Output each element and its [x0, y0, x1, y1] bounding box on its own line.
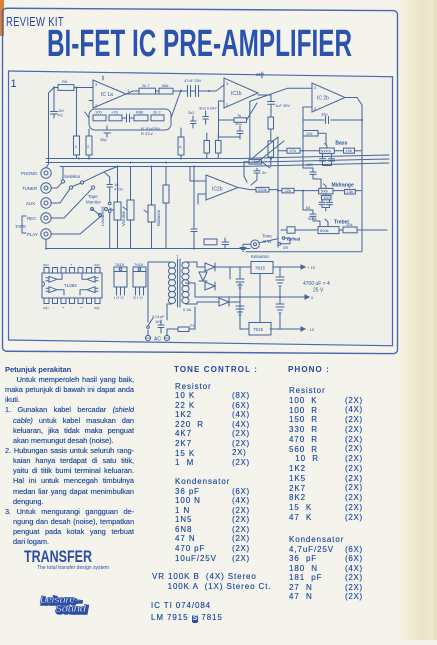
switch mains — [147, 326, 150, 329]
resistor R2 feedback — [93, 115, 106, 121]
wire output chain — [270, 129, 272, 167]
tone control kondensator qty — [232, 487, 250, 564]
capacitor C14 feedback 3n — [254, 168, 260, 176]
capacitor C1 input shunt — [51, 88, 58, 119]
cream right page edge — [398, 0, 437, 640]
capacitor C30 electrolytic — [236, 267, 244, 288]
capacitor C5 coupling pair — [186, 86, 193, 97]
feedback loop box IC1a — [89, 109, 171, 130]
selector contacts — [61, 180, 64, 183]
wire into IC1b — [202, 85, 225, 91]
transformer T1 — [178, 259, 181, 307]
capacitor C17 series 8k2 — [303, 191, 320, 227]
orange scan sliver top-left — [0, 0, 4, 36]
pot Balance — [148, 205, 155, 222]
regulator U2 7815 — [251, 262, 273, 274]
phono kondensator names — [289, 535, 344, 602]
wires jacks to selector — [51, 183, 92, 218]
wire pin2 to feedback — [85, 90, 181, 118]
pot VR2 Midrange 500K — [319, 188, 333, 194]
wire IC2a input — [250, 88, 312, 159]
wire tape monitor — [51, 209, 100, 234]
DIP internal op-amp A — [46, 274, 62, 282]
switch tone defeat contacts — [282, 237, 285, 240]
capacitor C6 selector 470n — [107, 180, 112, 191]
wire IC1a top stub — [102, 76, 104, 80]
IC U1 TL084 DIP body — [42, 273, 102, 298]
regulator TO220 7815 — [114, 267, 127, 272]
outer frame box — [3, 8, 398, 353]
resistor R39 feedback IC2b 75k — [249, 159, 262, 164]
diode D4 — [199, 272, 207, 281]
PHONO heading — [288, 365, 330, 374]
wires pots verticals — [118, 167, 191, 249]
wire IC1a output — [126, 91, 186, 94]
leisure sound logo — [40, 594, 88, 617]
resistor R9 vertical — [74, 136, 80, 155]
schematic paper tint panel — [9, 71, 392, 345]
tone control kondensator names — [175, 477, 230, 563]
capacitor C13 pair below mid — [319, 194, 333, 211]
resistor R38 220k out — [256, 187, 269, 192]
capacitor C20 — [191, 224, 197, 237]
capacitor C9 feedback IC1b — [237, 126, 243, 139]
wire primary leads — [148, 262, 172, 322]
diode D1 — [205, 263, 215, 271]
wire R11 drops — [180, 128, 182, 159]
wire feedback loop IC1b — [219, 101, 258, 139]
output terminal +15 — [296, 265, 305, 269]
capacitor C10 1uF 35V — [258, 95, 275, 117]
capacitor C8 stage2 left — [191, 116, 197, 128]
resistor R25 output chain — [268, 141, 274, 157]
output terminal 0 — [300, 295, 309, 299]
DIP internal op-amp C — [82, 274, 98, 282]
wire IC2b output — [238, 188, 278, 190]
pot VR Treble 500K — [318, 227, 339, 234]
resistor R32 bass left 47k — [287, 148, 300, 153]
regulator U3 7915 — [249, 323, 271, 336]
resistor R22 vertical stage2 — [216, 141, 222, 154]
tone control resistor names — [175, 382, 212, 468]
capacitor C8b stage2 — [203, 111, 209, 124]
bus wire 3 — [60, 163, 389, 167]
op-amp IC1b — [224, 78, 258, 108]
wire play bottom run — [46, 239, 250, 248]
svg-text:The total transfer design syst: The total transfer design system — [37, 565, 109, 571]
resistor R24 output chain — [268, 117, 274, 129]
selector wiper — [72, 171, 106, 187]
resistor R36 treble left — [287, 227, 295, 233]
wire AC leads — [148, 330, 167, 335]
DIP pins bottom — [44, 298, 49, 304]
resistor R7 output — [139, 88, 156, 94]
resistor R5 feedback — [151, 115, 164, 121]
resistor R40 lower — [204, 239, 217, 245]
junction dots — [45, 87, 363, 299]
DIP pins top — [44, 268, 49, 274]
wire bass row — [278, 150, 361, 152]
resistor R33 bass right 10k — [344, 148, 355, 153]
wire output run — [246, 238, 361, 252]
pot VR1 Bass 500KB — [320, 148, 335, 154]
capacitor C16 series 180n — [303, 151, 321, 189]
op-amp IC2b lower — [206, 175, 238, 200]
TONE CONTROL heading — [174, 365, 258, 374]
wire IC2a output right rail — [345, 98, 362, 252]
wire selector to bus diagonals — [63, 167, 118, 180]
fuse F1 — [178, 327, 189, 332]
output terminal -15 — [296, 327, 305, 331]
resistor R3 feedback — [109, 115, 122, 121]
tape monitor contacts — [91, 208, 94, 211]
jack TUNER — [41, 183, 51, 193]
jack output Keluaran — [251, 240, 260, 249]
wire IC2a feedback — [303, 107, 362, 138]
resistor R41 below mid pot — [322, 195, 332, 199]
wire feedback loop IC2b — [244, 162, 270, 185]
resistor R4 feedback — [134, 115, 148, 121]
wire R9 R10 drops — [77, 88, 90, 159]
psu wiring — [195, 262, 300, 329]
capacitor C32 electrolytic — [236, 297, 244, 329]
resistor R31 12k — [303, 131, 318, 137]
resistor R21 vertical stage2 — [204, 141, 210, 154]
capacitor C11 feedback IC2a 36p — [326, 117, 329, 124]
regulator TO220 7915 — [133, 267, 146, 272]
wire stage2 drops — [207, 133, 219, 159]
pot Loudness — [114, 202, 121, 220]
bus wire 2 — [46, 159, 389, 163]
resistor R23 feedback IC1b — [234, 118, 247, 123]
input coupling wire — [54, 87, 93, 89]
pot Volume — [127, 200, 134, 220]
bus wire 1 — [46, 155, 389, 159]
AC input terminals — [145, 335, 150, 340]
resistor R35 mid right 15k — [345, 189, 356, 194]
op-amp IC1a — [93, 80, 126, 108]
svg-text:TRANSFER: TRANSFER — [24, 547, 92, 566]
ground symbol output — [240, 244, 251, 251]
wire 12k links — [303, 133, 326, 150]
capacitor C15 lower — [222, 238, 229, 249]
VR lines — [152, 572, 271, 591]
Petunjuk perakitan heading — [5, 365, 71, 374]
capacitor C34 mains 0.01uF — [158, 320, 164, 333]
wire treble row — [281, 229, 387, 231]
capacitor C12 pair below bass pot — [320, 154, 335, 166]
resistor R37 treble right — [343, 227, 357, 233]
right page edge shade — [433, 0, 437, 640]
svg-text:Sound: Sound — [55, 603, 87, 615]
wire secondary leads — [186, 262, 198, 304]
tone network left rail — [277, 137, 279, 247]
transformer secondary winding — [182, 262, 189, 268]
tone control resistor qty — [232, 391, 250, 468]
wire loudness switch — [104, 172, 110, 249]
phono resistor names — [289, 386, 326, 523]
wire left input drop — [46, 88, 54, 168]
wire x194 drop — [193, 167, 195, 249]
resistor R1 input series — [58, 85, 74, 91]
transformer primary winding — [168, 262, 175, 268]
wire diag bus to tone rail — [252, 137, 284, 163]
jack AUX — [41, 198, 51, 208]
capacitor C31 electrolytic — [276, 267, 284, 297]
capacitor C2 feedback — [123, 114, 133, 122]
schematic frame — [9, 71, 393, 346]
DIP internal op-amp B — [46, 287, 64, 295]
wire midrange row — [278, 190, 361, 192]
phono kondensator qty — [345, 545, 363, 602]
resistor R34 mid left 22k — [282, 188, 294, 193]
diode D2 — [205, 282, 215, 290]
resistor R8 — [159, 88, 173, 94]
IC / LM lines — [151, 600, 223, 625]
capacitor C33 electrolytic — [276, 297, 284, 329]
DIP internal op-amp D — [80, 287, 98, 295]
resistor R10 vertical — [86, 136, 92, 155]
jack PLAY — [41, 229, 51, 239]
instruction paragraph — [5, 375, 134, 547]
capacitor C3 below — [104, 126, 111, 137]
jack REC — [41, 213, 51, 223]
DIP pin1 notch — [42, 282, 45, 287]
jack PHONO — [41, 168, 51, 178]
resistor R11 vertical — [178, 137, 184, 155]
diode D3 — [219, 298, 229, 306]
phono resistor qty — [345, 396, 363, 523]
switch loudness contacts — [108, 202, 111, 205]
op-amp IC2a top right — [312, 83, 345, 112]
wire IC2b input — [190, 170, 206, 204]
resistor R45 vertical — [163, 185, 169, 203]
